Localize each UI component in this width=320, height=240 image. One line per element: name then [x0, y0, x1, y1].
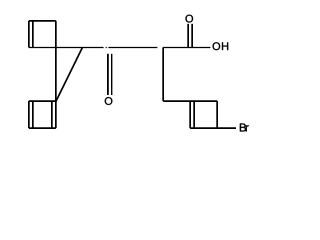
carboxyl C=O double bond line 1 — [187, 24, 189, 48]
wire: chain bond ketone C to CH — [108, 47, 157, 49]
ring B left double bond inner line — [32, 102, 34, 128]
wire: main chain bond + ring A bottom edge — [29, 47, 104, 49]
atom label OH (carboxyl) — [213, 42, 229, 50]
ring B right double bond inner line — [51, 102, 53, 128]
wire: vertical bond CH to CH2 — [162, 48, 164, 102]
carboxyl C=O double bond line 2 — [191, 24, 193, 48]
node: ketone carbon dot — [106, 47, 107, 49]
wire: shared vertical (ring A right edge + connector bond + ring B right edge) — [55, 21, 57, 128]
ring C double bond inner line — [193, 102, 195, 128]
ring C right edge — [216, 101, 218, 128]
wire: bond CH2 to ring C + ring C top edge — [163, 100, 217, 102]
ketone C=O double bond line 2 — [111, 54, 113, 95]
ring B top edge — [29, 100, 56, 102]
ring A top edge — [29, 20, 56, 22]
ring A double bond inner line — [32, 21, 34, 47]
ring B (bottom-left cyclobutadiene) left edge — [28, 101, 30, 128]
ring A (top-left cyclobutene) left edge — [28, 21, 30, 48]
wire: chain bond CH to carboxyl C and on to OH — [163, 47, 211, 49]
ring C bottom edge + bond to Br — [190, 127, 236, 129]
atom label Br — [240, 124, 249, 132]
ring B bottom edge — [29, 127, 56, 129]
ring C (bromocyclobutene) left edge — [189, 101, 191, 128]
atom label O (carboxyl) — [186, 15, 194, 23]
wire: diagonal bond to ring B — [56, 48, 82, 102]
ketone C=O double bond line 1 — [107, 54, 109, 95]
atom label O (ketone) — [105, 97, 113, 105]
